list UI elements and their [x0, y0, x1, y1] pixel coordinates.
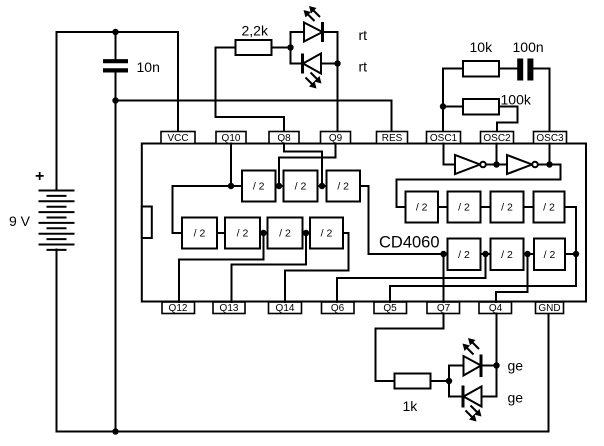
pin OSC3 — [534, 132, 567, 145]
node R2a-R2b junction — [482, 251, 488, 257]
svg-text:Q6: Q6 — [331, 303, 345, 314]
wire battery minus lead and bottom ground rail and GND pin riser — [57, 250, 549, 432]
divider box L2b — [225, 218, 260, 249]
svg-text:2,2k: 2,2k — [242, 23, 269, 39]
divider box L2c — [268, 218, 303, 249]
svg-text:OSC2: OSC2 — [483, 133, 511, 144]
wire L2d out to Q14 — [285, 233, 349, 302]
wire junction to Q12 — [179, 233, 264, 302]
wire R1a-R1b — [438, 206, 448, 208]
svg-text:/ 2: / 2 — [543, 202, 555, 214]
wire LED D2 out — [321, 63, 338, 65]
node OSC3 junction — [546, 161, 552, 167]
svg-text:Q14: Q14 — [276, 303, 295, 314]
node OSC2 junction — [493, 161, 499, 167]
wire capacitor 10n top lead — [115, 32, 117, 59]
svg-text:rt: rt — [359, 27, 368, 43]
resistor R2 10k — [463, 39, 499, 77]
divider box L1b — [284, 171, 318, 202]
pin RES — [377, 132, 408, 145]
pin VCC — [161, 132, 195, 145]
svg-text:/ 2: / 2 — [501, 249, 513, 261]
pin OSC1 — [427, 132, 461, 145]
resistor R4 1k — [395, 374, 431, 415]
divider box R1a — [406, 192, 439, 223]
svg-text:1k: 1k — [403, 398, 419, 414]
LED D1 rt (pointing right) — [304, 6, 323, 42]
svg-text:Q12: Q12 — [169, 303, 188, 314]
wire R2b-R2c — [524, 253, 535, 255]
divider box L2d — [310, 218, 343, 249]
pin Q6 — [322, 302, 355, 314]
svg-text:Q10: Q10 — [222, 133, 241, 144]
pin Q12 — [162, 302, 195, 314]
node VCC-cap junction — [112, 29, 118, 35]
divider box R2a — [448, 239, 481, 271]
wire OSC2 stub — [496, 144, 498, 165]
wire LED pair left branch — [291, 32, 305, 64]
svg-text:Q7: Q7 — [437, 303, 451, 314]
svg-text:/ 2: / 2 — [237, 228, 249, 240]
wire inverter2 out feedback to divider E1 — [397, 165, 561, 208]
node Q7 junction — [440, 251, 446, 257]
wire R1c-R1d — [524, 206, 534, 208]
svg-text:/ 2: / 2 — [458, 249, 470, 261]
wire 1k out — [431, 380, 450, 382]
svg-text:10n: 10n — [137, 59, 160, 75]
pin Q9 — [321, 132, 351, 145]
pin Q10 — [216, 132, 246, 145]
capacitor C1 10n — [103, 59, 160, 75]
wire Q10 stub — [230, 144, 232, 187]
svg-text:/ 2: / 2 — [458, 202, 470, 214]
battery BT1 9V — [9, 168, 74, 250]
svg-text:/ 2: / 2 — [295, 181, 307, 193]
wire 100k left lead — [443, 106, 463, 108]
wire 100k to OSC2 — [497, 107, 518, 132]
wire junction to Q13 — [232, 233, 307, 302]
svg-text:rt: rt — [359, 59, 368, 75]
IC U1 CD4060 body — [142, 144, 586, 302]
wire R2a-R2b — [481, 253, 491, 255]
svg-text:RES: RES — [382, 133, 403, 144]
svg-text:Q13: Q13 — [220, 303, 239, 314]
capacitor C2 100n — [513, 39, 544, 81]
svg-text:Q4: Q4 — [489, 303, 503, 314]
LED D3 ge (pointing right) — [463, 338, 482, 377]
wire L1c out to row2-right — [360, 186, 444, 254]
wire battery plus lead — [56, 32, 58, 191]
wire row1-left input loop — [173, 186, 243, 233]
node R1d-F3 junction — [573, 251, 579, 257]
svg-text:10k: 10k — [470, 39, 494, 55]
wire junction to Q4 — [496, 254, 528, 302]
svg-text:9 V: 9 V — [9, 213, 31, 229]
node LED pair2 left junction — [446, 378, 452, 384]
svg-text:/ 2: / 2 — [544, 249, 556, 261]
wire R1b-R1c — [481, 206, 491, 208]
wire Q8 to resistor 2,2k — [216, 48, 285, 132]
wire L2b-L2c — [260, 232, 268, 234]
svg-text:/ 2: / 2 — [321, 228, 333, 240]
node OSC1-100k junction — [440, 103, 446, 109]
node Q10 junction — [228, 183, 234, 189]
svg-text:CD4060: CD4060 — [379, 234, 440, 252]
svg-text:/ 2: / 2 — [416, 202, 428, 214]
divider box L1a — [242, 171, 276, 202]
svg-text:ge: ge — [508, 390, 524, 406]
node LED pair2 right junction — [493, 362, 499, 368]
divider box L2a — [182, 218, 217, 249]
node LED pair right junction — [334, 60, 340, 66]
svg-text:/ 2: / 2 — [337, 181, 349, 193]
divider box R1d — [534, 192, 565, 223]
node L1a-L1b junction — [276, 183, 282, 189]
node LED pair left junction — [287, 44, 293, 50]
pin OSC2 — [481, 132, 514, 145]
svg-text:Q9: Q9 — [329, 133, 343, 144]
wire Q7 drop — [443, 254, 445, 302]
inverter U1b — [507, 155, 538, 174]
svg-text:+: + — [35, 168, 44, 185]
wire OSC3 stub — [549, 144, 551, 165]
svg-text:100k: 100k — [501, 92, 532, 108]
wire RES to ground — [116, 101, 392, 132]
svg-text:Q5: Q5 — [383, 303, 397, 314]
pin Q7 — [427, 302, 460, 314]
wire junction to Q6 — [337, 254, 486, 302]
wire ground vertical from cap to bottom rail — [115, 73, 117, 432]
svg-text:VCC: VCC — [167, 133, 188, 144]
pin Q14 — [269, 302, 302, 314]
divider box R1b — [448, 192, 481, 223]
wire Q4 drop through LED pair — [482, 314, 497, 397]
node ground rail junction — [112, 428, 118, 434]
wire 10k to 100n — [499, 68, 517, 70]
wire 100n to OSC3 — [534, 69, 550, 132]
svg-text:GND: GND — [538, 303, 560, 314]
wire L1b-L1c — [318, 185, 327, 187]
wire top VCC rail — [57, 32, 179, 132]
wire OSC1 stub to inverter 1 input — [444, 144, 456, 165]
node L1b-L1c junction — [319, 183, 325, 189]
wire OSC1 riser to 10k — [443, 69, 463, 132]
resistor R1 2,2k — [236, 23, 272, 56]
wire R1d out down to row2 and Q5 — [390, 207, 576, 302]
wire resistor 2,2k to LED pair — [272, 47, 291, 49]
LED D4 ge (pointing left) — [463, 386, 482, 422]
svg-text:ge: ge — [508, 358, 524, 374]
divider box R2b — [491, 239, 524, 271]
svg-text:/ 2: / 2 — [253, 181, 265, 193]
svg-text:100n: 100n — [513, 39, 544, 55]
wire L1a-L1b — [276, 185, 284, 187]
divider box R2c — [534, 239, 565, 271]
pin GND — [536, 302, 564, 314]
node L2b-L2c junction — [260, 230, 266, 236]
wire Q8 stub into IC — [284, 144, 322, 187]
node cap-RES junction — [112, 97, 118, 103]
wire L2c-L2d — [303, 232, 311, 234]
node R2b-R2c junction — [524, 251, 530, 257]
resistor R3 100k — [463, 92, 532, 115]
svg-text:/ 2: / 2 — [501, 202, 513, 214]
svg-text:OSC3: OSC3 — [536, 133, 564, 144]
IC notch rectangle on left edge — [142, 207, 152, 239]
wire Q9 riser — [337, 32, 339, 132]
node L2c-L2d junction — [303, 230, 309, 236]
svg-text:/ 2: / 2 — [194, 228, 206, 240]
inverter U1a — [455, 155, 486, 174]
svg-text:/ 2: / 2 — [279, 228, 291, 240]
divider box R1c — [491, 192, 524, 223]
wire Q7 to resistor 1k — [376, 314, 444, 382]
wire LED D1 out — [325, 31, 338, 33]
pin Q4 — [479, 302, 512, 314]
wire L2a-L2b — [217, 232, 225, 234]
wire inverter1 out to inverter2 in — [486, 164, 507, 166]
LED D2 rt (pointing left) — [303, 54, 322, 89]
wire LED pair2 left branch — [449, 366, 464, 397]
wire LED D3 out — [483, 365, 497, 367]
pin Q13 — [213, 302, 245, 314]
svg-text:Q8: Q8 — [277, 133, 291, 144]
pin Q5 — [374, 302, 407, 314]
divider box L1c — [327, 171, 361, 202]
wire F3 input — [565, 253, 576, 255]
wire Q9 stub into IC — [279, 144, 336, 187]
pin Q8 — [269, 132, 299, 145]
svg-text:OSC1: OSC1 — [430, 133, 458, 144]
wire R2a left to Q7 node — [444, 253, 448, 255]
